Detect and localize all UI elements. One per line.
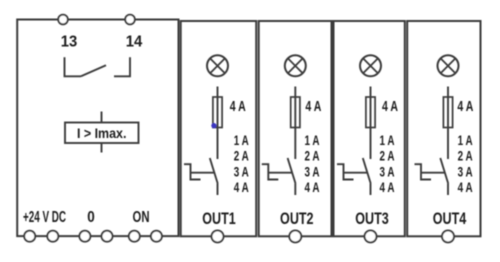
overcurrent detector box U2 bbox=[65, 123, 139, 144]
svg-text:4 A: 4 A bbox=[380, 179, 395, 195]
blue mark on fuse F1 bbox=[211, 123, 216, 128]
svg-text:OUT2: OUT2 bbox=[280, 209, 314, 228]
svg-text:1 A: 1 A bbox=[458, 132, 473, 148]
svg-text:3 A: 3 A bbox=[234, 163, 249, 179]
svg-text:4 A: 4 A bbox=[305, 179, 320, 195]
wire switch S2 to terminal OUT2 bbox=[294, 184, 296, 196]
wire switch S4 to terminal OUT4 bbox=[447, 184, 449, 196]
svg-text:OUT1: OUT1 bbox=[202, 209, 236, 228]
wire switch S1 to terminal OUT1 bbox=[217, 184, 219, 196]
terminal OUT2 bbox=[289, 230, 301, 242]
module U1 outline (electronic circuit breaker housing) bbox=[17, 20, 178, 237]
switch S1 blade bbox=[210, 158, 218, 184]
module channel 2 outline bbox=[259, 21, 332, 236]
terminal +24VDC b bbox=[47, 231, 58, 242]
terminal 14 bbox=[125, 15, 135, 25]
fuse F3 bbox=[366, 97, 375, 128]
svg-text:OUT3: OUT3 bbox=[355, 209, 389, 228]
svg-text:2 A: 2 A bbox=[234, 148, 249, 164]
current setting labels 1A-4A channel 2 bbox=[305, 132, 320, 195]
svg-text:+24 V DC: +24 V DC bbox=[23, 209, 66, 226]
terminal 13 bbox=[58, 15, 68, 25]
svg-text:4 A: 4 A bbox=[458, 179, 473, 195]
switch S1 actuator (thermal trip linkage) bbox=[184, 164, 215, 179]
wire switch S3 to terminal OUT3 bbox=[370, 184, 372, 196]
svg-text:ON: ON bbox=[133, 209, 150, 226]
wire lamp P4 to fuse F4 bbox=[447, 87, 449, 98]
contact 13-14 blade (open signal contact) bbox=[81, 65, 106, 76]
switch S2 actuator (thermal trip linkage) bbox=[262, 164, 293, 179]
switch S4 actuator (thermal trip linkage) bbox=[415, 164, 446, 179]
indicator lamp P3 bbox=[360, 55, 381, 76]
svg-text:4 A: 4 A bbox=[305, 98, 321, 115]
terminal 0V b bbox=[102, 231, 113, 242]
switch S3 blade bbox=[363, 158, 371, 184]
svg-text:4 A: 4 A bbox=[230, 98, 246, 115]
fuse F1 bbox=[213, 97, 222, 128]
svg-text:4 A: 4 A bbox=[457, 98, 473, 115]
svg-text:I > Imax.: I > Imax. bbox=[77, 125, 127, 141]
svg-text:3 A: 3 A bbox=[458, 163, 473, 179]
svg-text:OUT4: OUT4 bbox=[433, 209, 467, 228]
contact 13-14 right lead bbox=[114, 57, 130, 76]
fuse F2 bbox=[291, 97, 300, 128]
module channel 4 outline bbox=[407, 21, 480, 236]
terminal 0V a bbox=[79, 231, 90, 242]
svg-text:3 A: 3 A bbox=[380, 163, 395, 179]
svg-text:14: 14 bbox=[126, 34, 143, 51]
terminal ON b bbox=[151, 231, 162, 242]
switch S4 blade bbox=[440, 158, 448, 184]
current setting labels 1A-4A channel 4 bbox=[458, 132, 473, 195]
svg-text:2 A: 2 A bbox=[458, 148, 473, 164]
wire stub below overcurrent detector bbox=[101, 143, 103, 153]
svg-text:1 A: 1 A bbox=[380, 132, 395, 148]
svg-text:1 A: 1 A bbox=[305, 132, 320, 148]
terminal OUT4 bbox=[442, 230, 454, 242]
svg-text:0: 0 bbox=[87, 209, 95, 226]
indicator lamp P1 bbox=[207, 55, 228, 76]
switch S2 blade bbox=[288, 158, 296, 184]
current setting labels 1A-4A channel 1 bbox=[234, 132, 249, 195]
indicator lamp P4 bbox=[438, 55, 459, 76]
wire fuse F4 to switch S4 bbox=[447, 128, 449, 160]
wire fuse F3 to switch S3 bbox=[370, 128, 372, 160]
svg-text:13: 13 bbox=[61, 34, 78, 51]
svg-text:3 A: 3 A bbox=[305, 163, 320, 179]
svg-text:1 A: 1 A bbox=[234, 132, 249, 148]
switch S3 actuator (thermal trip linkage) bbox=[337, 164, 368, 179]
wire lamp P3 to fuse F3 bbox=[370, 87, 372, 98]
svg-text:4 A: 4 A bbox=[234, 179, 249, 195]
wire fuse F1 to switch S1 bbox=[217, 128, 219, 160]
terminal ON a bbox=[129, 231, 140, 242]
wire fuse F2 to switch S2 bbox=[294, 128, 296, 160]
module channel 1 outline bbox=[181, 21, 257, 236]
wire lamp P1 to fuse F1 bbox=[217, 87, 219, 98]
svg-text:4 A: 4 A bbox=[382, 98, 398, 115]
terminal OUT3 bbox=[365, 230, 377, 242]
module channel 3 outline bbox=[334, 21, 405, 236]
terminal OUT1 bbox=[212, 230, 224, 242]
wire lamp P2 to fuse F2 bbox=[294, 87, 296, 98]
indicator lamp P2 bbox=[285, 55, 306, 76]
wire stub above overcurrent detector bbox=[101, 112, 103, 123]
svg-text:2 A: 2 A bbox=[380, 148, 395, 164]
fuse F4 bbox=[443, 97, 452, 128]
contact 13-14 left lead bbox=[65, 57, 82, 76]
svg-text:2 A: 2 A bbox=[305, 148, 320, 164]
current setting labels 1A-4A channel 3 bbox=[380, 132, 395, 195]
terminal +24VDC a bbox=[24, 231, 35, 242]
